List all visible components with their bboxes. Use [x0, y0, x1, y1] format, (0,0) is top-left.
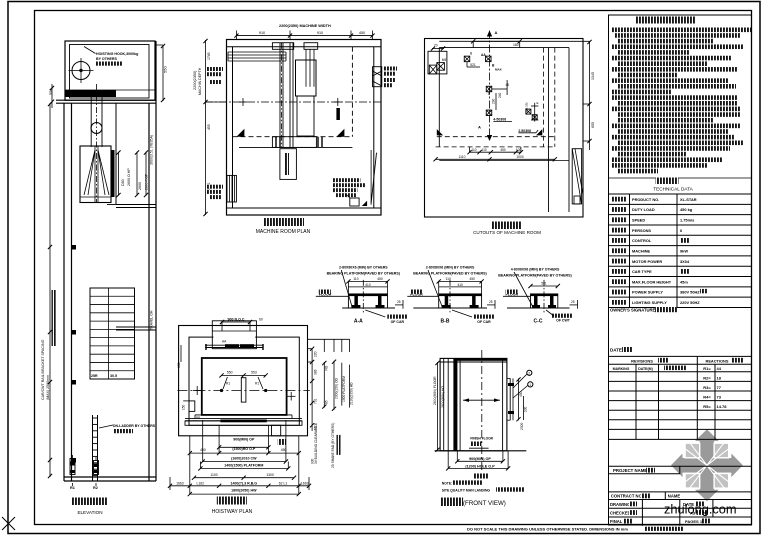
- svg-text:220V 50HZ: 220V 50HZ: [680, 300, 700, 305]
- svg-text:NOTE:: NOTE:: [442, 481, 453, 485]
- svg-text:R1: R1: [70, 486, 75, 490]
- svg-text:550: 550: [163, 66, 168, 73]
- svg-text:25R: 25R: [91, 374, 98, 378]
- svg-text:(1500)RO O.P: (1500)RO O.P: [232, 447, 256, 451]
- svg-text:2600(MIN) HO: 2600(MIN) HO: [441, 386, 445, 408]
- svg-text:77: 77: [717, 385, 722, 390]
- svg-text:3X04: 3X04: [680, 259, 690, 264]
- svg-text:4-60X60X6 (MIN) BY OTHERS: 4-60X60X6 (MIN) BY OTHERS: [511, 268, 560, 272]
- svg-text:TECHNICAL DATA: TECHNICAL DATA: [653, 187, 693, 192]
- svg-text:553: 553: [251, 371, 257, 375]
- svg-text:655: 655: [591, 122, 595, 128]
- svg-text:A: A: [478, 125, 481, 130]
- svg-text:1345: 1345: [591, 72, 595, 80]
- svg-text:2300(150) OD: 2300(150) OD: [334, 377, 338, 399]
- svg-text:PAGES 1: PAGES 1: [685, 519, 703, 524]
- svg-text:CONTROL: CONTROL: [632, 238, 652, 243]
- svg-text:450 kg: 450 kg: [680, 207, 693, 212]
- svg-text:110: 110: [471, 148, 476, 152]
- svg-text:2300: 2300: [520, 422, 524, 430]
- svg-text:RO: RO: [325, 365, 329, 370]
- svg-text:450: 450: [377, 277, 383, 281]
- svg-text:110: 110: [353, 277, 358, 281]
- svg-text:HOISTING HOOK,3000kg: HOISTING HOOK,3000kg: [96, 52, 138, 56]
- svg-text:900(MIN) OP: 900(MIN) OP: [469, 457, 491, 461]
- svg-text:1100: 1100: [210, 473, 217, 477]
- svg-text:1400(?).3 R.B.G: 1400(?).3 R.B.G: [231, 481, 258, 485]
- svg-text:NAME: NAME: [668, 493, 681, 498]
- svg-text:450: 450: [359, 31, 365, 35]
- svg-text:2200(2350): 2200(2350): [193, 70, 197, 90]
- svg-text:62 L1: 62 L1: [279, 481, 288, 485]
- svg-text:OWNER'S SIGNATURE: OWNER'S SIGNATURE: [610, 308, 656, 313]
- svg-text:ELEVATION: ELEVATION: [77, 510, 102, 515]
- svg-text:1: 1: [529, 383, 531, 387]
- svg-text:(MAX) 2500mm: (MAX) 2500mm: [46, 375, 50, 400]
- svg-text:900(MIN) OP: 900(MIN) OP: [233, 437, 255, 441]
- svg-text:DO NOT SCALE THIS DRAWING UNLE: DO NOT SCALE THIS DRAWING UNLESS OTHERWI…: [467, 527, 628, 532]
- svg-text:2600 P.OP: 2600 P.OP: [145, 173, 149, 190]
- svg-text:2-80X80X6 (MIN) BY OTHERS: 2-80X80X6 (MIN) BY OTHERS: [426, 266, 475, 270]
- svg-text:410: 410: [457, 283, 463, 287]
- svg-text:R2: R2: [93, 486, 98, 490]
- svg-text:25: 25: [571, 300, 575, 304]
- svg-text:1745: 1745: [207, 52, 211, 60]
- svg-text:450: 450: [469, 277, 475, 281]
- svg-text:455: 455: [207, 124, 211, 130]
- svg-text:SITE QUALITY MAN LANDING: SITE QUALITY MAN LANDING: [442, 488, 491, 492]
- svg-text:R1: R1: [226, 382, 230, 386]
- svg-text:CUTOUTS OF MACHINE ROOM: CUTOUTS OF MACHINE ROOM: [473, 230, 541, 235]
- svg-text:OF CWT: OF CWT: [556, 318, 571, 322]
- svg-text:FINAL: FINAL: [610, 519, 623, 524]
- svg-text:25 SHAKE PAD (BY OTHERS): 25 SHAKE PAD (BY OTHERS): [331, 423, 335, 468]
- svg-text:C-C: C-C: [534, 319, 543, 325]
- svg-text:1400(1500) PLATFORM: 1400(1500) PLATFORM: [224, 464, 263, 468]
- svg-text:100: 100: [524, 406, 528, 412]
- svg-text:M5: M5: [442, 58, 447, 62]
- svg-text:MACHINE: MACHINE: [632, 248, 651, 253]
- svg-text:180: 180: [513, 43, 519, 47]
- svg-text:BEARING PLATFORM(PAVED BY OTHE: BEARING PLATFORM(PAVED BY OTHERS): [327, 272, 401, 276]
- svg-text:910: 910: [317, 31, 323, 35]
- svg-text:2-80X80X6 (MIN) BY OTHERS: 2-80X80X6 (MIN) BY OTHERS: [339, 266, 388, 270]
- svg-text:MARKING: MARKING: [613, 367, 630, 371]
- svg-text:(FRONT VIEW): (FRONT VIEW): [463, 500, 506, 507]
- svg-text:410: 410: [481, 148, 487, 152]
- svg-text:AA: AA: [481, 53, 486, 57]
- svg-text:(1600)2010 CW: (1600)2010 CW: [231, 456, 257, 460]
- svg-text:73: 73: [717, 395, 722, 400]
- svg-text:OF CAR: OF CAR: [391, 320, 405, 324]
- svg-text:25: 25: [489, 300, 493, 304]
- svg-text:1663: 1663: [176, 481, 184, 485]
- svg-text:3600(3.51 (YB35A): 3600(3.51 (YB35A): [150, 135, 154, 165]
- svg-text:R4=: R4=: [703, 395, 711, 400]
- svg-text:2130(2350) HD: 2130(2350) HD: [350, 382, 354, 405]
- svg-text:1.75m/s: 1.75m/s: [680, 217, 694, 222]
- svg-text:1800(2050) HW: 1800(2050) HW: [231, 489, 257, 493]
- svg-text:MAX: MAX: [495, 68, 502, 72]
- svg-text:2200(2350) MACHINE WIDTH: 2200(2350) MACHINE WIDTH: [279, 24, 331, 28]
- svg-text:1110: 1110: [459, 155, 466, 159]
- svg-text:2.50306: 2.50306: [518, 129, 531, 133]
- svg-text:3# BUILDING CLEARANCE: 3# BUILDING CLEARANCE: [314, 422, 318, 464]
- svg-text:AA: AA: [196, 415, 200, 419]
- svg-text:REVISIONS: REVISIONS: [631, 359, 653, 364]
- svg-text:R3=: R3=: [703, 385, 711, 390]
- svg-text:BY OTHERS: BY OTHERS: [96, 57, 118, 61]
- svg-text:1000: 1000: [516, 155, 524, 159]
- svg-text:PRODUCT NO.: PRODUCT NO.: [632, 197, 659, 202]
- svg-text:60: 60: [259, 317, 263, 321]
- svg-text:SPEED: SPEED: [632, 217, 645, 222]
- svg-text:BEARING PLATFORM(PAVED BY OTHE: BEARING PLATFORM(PAVED BY OTHERS): [413, 272, 487, 276]
- svg-text:731: 731: [314, 398, 318, 404]
- svg-text:A: A: [495, 30, 498, 35]
- svg-text:XL-STAR: XL-STAR: [680, 197, 697, 202]
- svg-text:150: 150: [182, 404, 186, 410]
- svg-text:MOTOR POWER: MOTOR POWER: [632, 259, 662, 264]
- svg-text:450: 450: [519, 391, 523, 397]
- svg-text:25: 25: [397, 300, 401, 304]
- svg-text:OF CAR: OF CAR: [477, 320, 491, 324]
- svg-text:910: 910: [259, 31, 265, 35]
- svg-text:(29.35): (29.35): [525, 102, 529, 112]
- svg-text:CHECKED: CHECKED: [610, 510, 631, 515]
- svg-text:REACTIONS: REACTIONS: [706, 359, 729, 364]
- svg-text:DATE: DATE: [610, 348, 622, 353]
- svg-text:155: 155: [177, 362, 181, 368]
- svg-text:2: 2: [528, 371, 530, 375]
- svg-text:386: 386: [314, 369, 318, 375]
- svg-text:R5=: R5=: [703, 404, 711, 409]
- svg-text:PERSONS: PERSONS: [632, 228, 651, 233]
- svg-text:CONTRACT NO: CONTRACT NO: [611, 493, 643, 498]
- svg-text:2600(MIN) FLOOR: 2600(MIN) FLOOR: [433, 376, 437, 405]
- svg-text:DRAWING: DRAWING: [610, 502, 630, 507]
- svg-text:1900 PLATFORM: 1900 PLATFORM: [342, 376, 346, 402]
- svg-text:MAX.FLOOR HEIGHT: MAX.FLOOR HEIGHT: [632, 279, 672, 284]
- svg-text:R1=: R1=: [703, 366, 711, 371]
- svg-text:LIGHTING SUPPLY: LIGHTING SUPPLY: [632, 300, 667, 305]
- svg-text:PROJECT NAME: PROJECT NAME: [613, 468, 647, 473]
- svg-text:CAR/CWT RAIL BRACKET SPACING: CAR/CWT RAIL BRACKET SPACING: [41, 339, 45, 400]
- svg-text:240: 240: [498, 92, 502, 98]
- svg-text:550: 550: [227, 371, 233, 375]
- svg-text:BEARING PLATFORM(PAVED BY OTHE: BEARING PLATFORM(PAVED BY OTHERS): [498, 274, 572, 278]
- svg-text:9kW: 9kW: [680, 248, 688, 253]
- svg-text:CAR TYPE: CAR TYPE: [632, 269, 652, 274]
- svg-text:DN-LADDER BY OTHERS: DN-LADDER BY OTHERS: [113, 424, 156, 428]
- svg-text:44: 44: [717, 366, 722, 371]
- svg-text:POWER SUPPLY: POWER SUPPLY: [632, 290, 663, 295]
- svg-text:70: 70: [434, 44, 438, 48]
- svg-text:30.5: 30.5: [110, 374, 117, 378]
- svg-text:A-A: A-A: [354, 319, 363, 325]
- svg-text:220: 220: [314, 351, 318, 357]
- svg-text:18: 18: [717, 375, 722, 380]
- svg-text:290: 290: [492, 98, 496, 104]
- svg-text:2600: 2600: [138, 182, 142, 190]
- svg-text:14.78: 14.78: [717, 404, 728, 409]
- svg-text:1300: 1300: [266, 473, 274, 477]
- svg-text:B-B: B-B: [441, 319, 450, 325]
- svg-text:45m: 45m: [680, 279, 688, 284]
- svg-text:zhulong.com: zhulong.com: [664, 502, 737, 517]
- svg-text:HOISTWAY PLAN: HOISTWAY PLAN: [212, 509, 253, 515]
- svg-text:450: 450: [500, 148, 506, 152]
- svg-text:D80: D80: [121, 179, 125, 186]
- svg-text:2600 O.HP: 2600 O.HP: [127, 168, 131, 186]
- svg-text:410: 410: [365, 283, 371, 287]
- svg-text:FINISH FLOOR: FINISH FLOOR: [470, 436, 493, 440]
- svg-text:380V 50HZ: 380V 50HZ: [680, 290, 700, 295]
- svg-text:DATE(M): DATE(M): [638, 367, 653, 371]
- svg-text:DUTY LOAD: DUTY LOAD: [632, 207, 655, 212]
- svg-text:L162: L162: [197, 481, 205, 485]
- svg-text:TRAVEL OH: TRAVEL OH: [150, 310, 154, 330]
- svg-text:45: 45: [506, 83, 510, 87]
- svg-text:900 N.O.C: 900 N.O.C: [228, 317, 245, 321]
- svg-text:85: 85: [325, 400, 329, 404]
- svg-text:521: 521: [470, 63, 476, 67]
- svg-text:MACHINE ROOM PLAN: MACHINE ROOM PLAN: [256, 229, 311, 235]
- svg-text:E: E: [537, 101, 539, 105]
- svg-text:R1: R1: [255, 382, 259, 386]
- svg-text:4-50306: 4-50306: [493, 118, 506, 122]
- svg-text:R2=: R2=: [703, 375, 711, 380]
- svg-text:1663: 1663: [301, 481, 309, 485]
- svg-text:MACHIN DEPTH: MACHIN DEPTH: [198, 67, 202, 95]
